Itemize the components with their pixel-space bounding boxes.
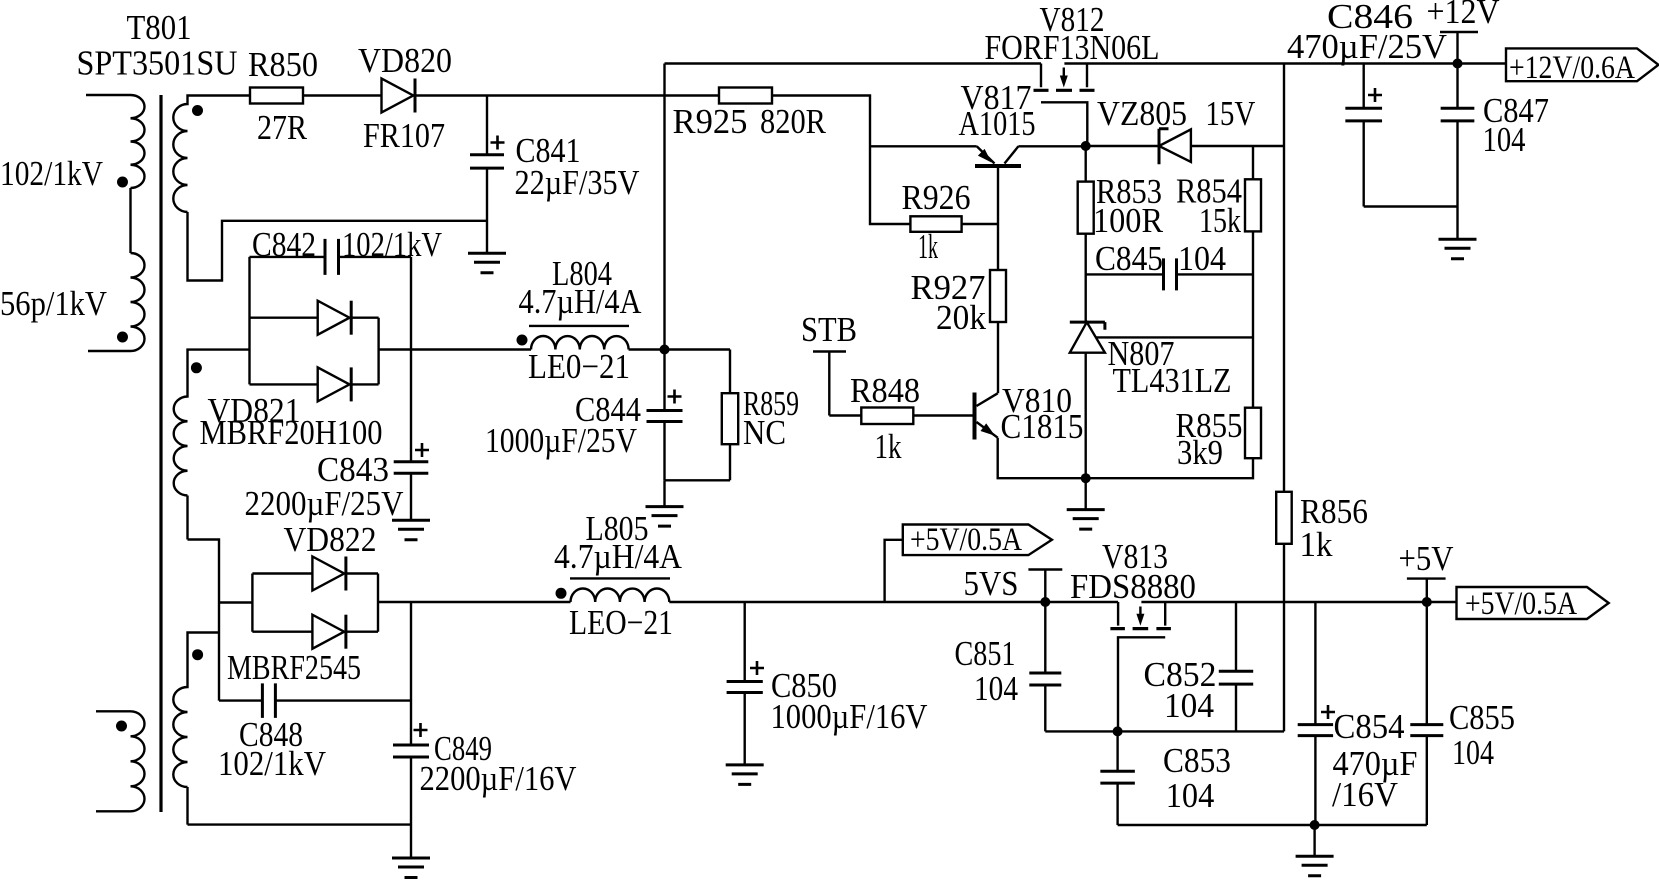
- +12V supply tap: [1427, 0, 1500, 64]
- resistor R850 27R: [248, 45, 318, 147]
- T801 secondary winding 2: [174, 350, 250, 540]
- capacitor C847 104: [1441, 64, 1549, 240]
- svg-text:C1815: C1815: [1001, 407, 1084, 446]
- svg-text:SPT3501SU: SPT3501SU: [77, 44, 238, 83]
- output arrow +5V/0.5A: [1457, 586, 1609, 622]
- capacitor C848 102/1kV: [218, 683, 411, 783]
- MOSFET V813 FDS8880: [1070, 537, 1196, 731]
- svg-text:R925: R925: [673, 102, 748, 141]
- ground at C841: [468, 253, 506, 272]
- svg-text:C851: C851: [955, 634, 1016, 673]
- svg-text:20k: 20k: [936, 298, 986, 337]
- svg-text:15k: 15k: [1199, 201, 1241, 240]
- junction dot 12V LC node: [660, 345, 670, 355]
- resistor R925 820R: [673, 88, 827, 142]
- svg-text:/16V: /16V: [1332, 775, 1398, 814]
- junction dot +12V node: [1453, 59, 1463, 69]
- svg-text:3k9: 3k9: [1177, 433, 1223, 472]
- svg-text:C853: C853: [1163, 741, 1231, 780]
- wire top 12V rail: [665, 62, 1042, 64]
- T801 secondary winding 3: [173, 633, 219, 825]
- svg-text:104: 104: [1166, 776, 1215, 815]
- svg-text:C854: C854: [1334, 707, 1405, 746]
- svg-text:820R: 820R: [760, 102, 827, 141]
- svg-text:2200µF/16V: 2200µF/16V: [420, 759, 577, 798]
- junction dot bottom ground node: [1310, 820, 1320, 830]
- resistor R927 20k: [911, 268, 1007, 337]
- svg-text:LEO−21: LEO−21: [569, 603, 673, 642]
- svg-text:STB: STB: [801, 310, 857, 349]
- phase dot primary winding 3: [116, 721, 127, 732]
- capacitor C845 104: [1086, 239, 1253, 290]
- transformer T801 label: [77, 8, 238, 83]
- wire regulator node to VZ805: [1086, 145, 1159, 147]
- svg-text:FDS8880: FDS8880: [1070, 567, 1196, 606]
- svg-text:R850: R850: [248, 45, 318, 84]
- wire +5V rail: [669, 601, 1118, 603]
- dual diode VD822 MBRF2545: [227, 520, 378, 687]
- inductor L805 4.7uH/4A: [554, 509, 683, 642]
- wire VD822 input: [219, 601, 252, 603]
- svg-text:1000µF/25V: 1000µF/25V: [485, 421, 637, 460]
- wire R925 to R926: [772, 96, 910, 225]
- wire V817 collector to regulator node: [1018, 145, 1085, 147]
- svg-text:22µF/35V: 22µF/35V: [515, 163, 640, 202]
- phase dot secondary winding 2: [191, 362, 202, 373]
- phase dot L804: [517, 335, 528, 346]
- capacitor C852 104: [1144, 602, 1254, 731]
- resistor R926 1k: [902, 178, 971, 266]
- wire secondary 1 return to C841 ground node: [188, 212, 488, 281]
- wire 12V rail vertical (crosses aux wire): [663, 64, 665, 350]
- svg-text:C855: C855: [1449, 698, 1515, 737]
- phase dot primary winding 2: [117, 332, 128, 343]
- wire VD821 output to L804 (crosses C843 drop): [379, 348, 531, 350]
- shunt regulator N807 TL431LZ: [1070, 322, 1253, 510]
- svg-text:VD820: VD820: [358, 41, 452, 80]
- capacitor C853 104: [1100, 731, 1231, 825]
- capacitor C850 1000uF/16V: [727, 602, 928, 765]
- transistor V810 C1815: [975, 381, 1084, 446]
- svg-text:C842: C842: [252, 225, 316, 264]
- svg-text:VZ805: VZ805: [1097, 94, 1187, 133]
- wire V810 emitter to ground node: [998, 438, 1086, 479]
- wire R927 to V810 collector: [997, 322, 999, 393]
- svg-text:+12V/0.6A: +12V/0.6A: [1509, 50, 1635, 86]
- capacitor C854 470uF/16V: [1298, 602, 1418, 825]
- zener diode VZ805 15V: [1097, 94, 1255, 164]
- capacitor C842 102/1kV: [250, 225, 443, 275]
- svg-text:4.7µH/4A: 4.7µH/4A: [519, 282, 643, 321]
- wire primary windings junction: [129, 188, 131, 253]
- transformer T801 core: [159, 95, 162, 812]
- ground at C843: [392, 520, 430, 540]
- STB tap: [801, 310, 857, 416]
- phase dot secondary winding 1: [192, 105, 203, 116]
- capacitor C849 2200uF/16V: [393, 602, 577, 858]
- svg-text:2200µF/25V: 2200µF/25V: [245, 484, 404, 523]
- svg-text:+12V: +12V: [1427, 0, 1500, 31]
- svg-text:A1015: A1015: [959, 104, 1036, 143]
- junction dot regulator node: [1081, 141, 1091, 151]
- svg-text:FR107: FR107: [363, 116, 445, 155]
- svg-text:C845: C845: [1095, 239, 1163, 278]
- resistor R855 3k9: [1086, 406, 1261, 478]
- transistor V817 A1015: [959, 78, 1036, 166]
- capacitor C851 104: [955, 602, 1118, 731]
- svg-text:102/1kV: 102/1kV: [218, 744, 326, 783]
- svg-text:LE0−21: LE0−21: [528, 347, 630, 386]
- resistor R859 NC: [722, 350, 799, 481]
- svg-text:104: 104: [1452, 733, 1494, 772]
- svg-text:VD822: VD822: [284, 520, 377, 559]
- ground at C847: [1439, 239, 1477, 259]
- svg-text:R848: R848: [850, 371, 920, 410]
- output arrow +12V/0.6A: [1506, 48, 1658, 86]
- resistor R856 1k: [1276, 64, 1368, 732]
- phase dot primary winding 1: [117, 177, 128, 188]
- svg-text:470µF/25V: 470µF/25V: [1287, 27, 1447, 66]
- diode VD820 FR107: [358, 41, 452, 155]
- resistor R854 15k: [1176, 146, 1261, 408]
- svg-text:+5V/0.5A: +5V/0.5A: [1465, 586, 1577, 622]
- svg-text:5VS: 5VS: [964, 564, 1019, 603]
- 5VS tap: [964, 564, 1063, 603]
- svg-text:1k: 1k: [875, 427, 902, 466]
- svg-text:1000µF/16V: 1000µF/16V: [771, 697, 928, 736]
- svg-text:104: 104: [1483, 120, 1526, 159]
- wire VD820 to R925 (crosses 12V rail drop): [415, 94, 719, 96]
- svg-text:104: 104: [974, 669, 1018, 708]
- ground at C850: [726, 765, 764, 785]
- T801 primary winding 56p/1kV: [88, 253, 145, 351]
- +5V supply tap: [1399, 539, 1454, 602]
- MOSFET V812 FORF13N06L: [985, 0, 1160, 146]
- wire top rail right section: [1064, 62, 1506, 64]
- wire L804 to R859: [629, 348, 730, 350]
- wire VZ805 to right rail drop: [1191, 145, 1284, 147]
- svg-text:15V: 15V: [1205, 94, 1255, 133]
- T801 secondary winding 1 (12V): [173, 96, 250, 213]
- svg-text:FORF13N06L: FORF13N06L: [985, 28, 1160, 67]
- wire gate node: [1118, 730, 1284, 732]
- ground at C849: [392, 858, 430, 878]
- svg-text:TL431LZ: TL431LZ: [1113, 361, 1232, 400]
- svg-text:1k: 1k: [1300, 525, 1333, 564]
- output arrow +5V/0.5A (5VS): [885, 522, 1052, 602]
- svg-text:100R: 100R: [1093, 201, 1164, 240]
- junction dot 5VS node: [1040, 597, 1050, 607]
- capacitor C846 470uF/25V: [1287, 0, 1458, 207]
- svg-text:104: 104: [1164, 686, 1214, 725]
- svg-text:NC: NC: [743, 413, 786, 452]
- T801 primary winding 102/1kV: [86, 95, 145, 188]
- capacitor C855 104: [1410, 602, 1515, 825]
- wire bottom ground rail: [1118, 824, 1427, 826]
- ground at C844: [663, 480, 665, 506]
- junction dot +5V node: [1422, 597, 1432, 607]
- phase dot secondary winding 3: [192, 649, 203, 660]
- wire winding 3 return rail: [188, 823, 412, 825]
- junction dot gate node: [1113, 726, 1123, 736]
- svg-text:+5V/0.5A: +5V/0.5A: [910, 522, 1022, 558]
- svg-text:102/1kV: 102/1kV: [0, 154, 103, 193]
- wire winding tap node: [188, 540, 220, 701]
- svg-text:4.7µH/4A: 4.7µH/4A: [554, 537, 683, 576]
- wire V817 emitter: [870, 145, 977, 147]
- inductor L804 4.7uH/4A: [519, 254, 643, 386]
- resistor R848 1k: [829, 371, 972, 466]
- junction dot ground node: [1081, 473, 1091, 483]
- dual diode VD821 MBRF20H100: [200, 257, 383, 452]
- svg-text:MBRF2545: MBRF2545: [227, 648, 361, 687]
- wire 5V rectifier output to L805: [378, 601, 571, 603]
- resistor R853 100R: [1078, 146, 1164, 322]
- svg-text:102/1kV: 102/1kV: [342, 225, 442, 264]
- wire +5V rail right section: [1141, 601, 1456, 603]
- svg-text:27R: 27R: [257, 108, 308, 147]
- ground at N807: [1067, 510, 1105, 529]
- T801 primary auxiliary winding: [96, 711, 145, 811]
- ground at bottom rail: [1313, 825, 1315, 856]
- svg-text:1k: 1k: [918, 227, 938, 266]
- phase dot L805: [556, 588, 567, 599]
- svg-text:+5V: +5V: [1399, 539, 1454, 578]
- svg-text:104: 104: [1178, 239, 1226, 278]
- wire R926 to V817 base: [962, 223, 998, 225]
- svg-text:T801: T801: [127, 8, 192, 47]
- capacitor C841 22uF/35V: [470, 96, 640, 254]
- wire R850 to VD820: [303, 94, 382, 96]
- capacitor C843 2200uF/25V: [245, 257, 430, 523]
- wire V817 base to R927: [997, 168, 999, 270]
- svg-text:R926: R926: [902, 178, 971, 217]
- svg-text:56p/1kV: 56p/1kV: [0, 284, 107, 323]
- svg-text:MBRF20H100: MBRF20H100: [200, 413, 383, 452]
- capacitor C844 1000uF/25V: [485, 350, 730, 481]
